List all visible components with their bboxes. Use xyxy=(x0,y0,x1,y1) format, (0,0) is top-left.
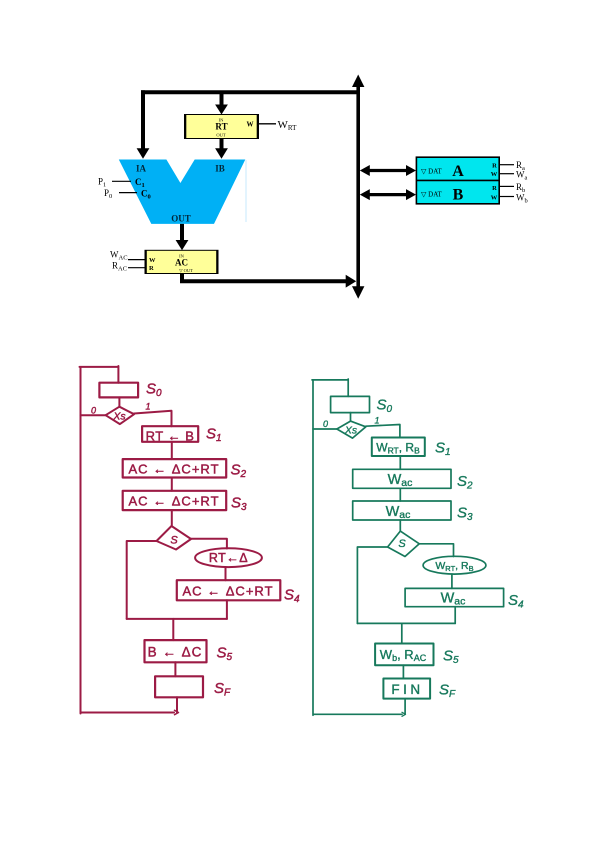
right chart handwritten texts xyxy=(323,397,524,701)
wire: branch 1 to S1 xyxy=(134,411,171,426)
wire: P0 stub xyxy=(119,192,137,194)
svg-text:AC ← ΔC+RT: AC ← ΔC+RT xyxy=(182,584,273,599)
wire: S5 to FIN right xyxy=(402,665,404,678)
wire: S1 to S2 xyxy=(171,442,173,459)
decision diamond Xs xyxy=(106,407,135,424)
wire: S4 down to join xyxy=(226,600,228,619)
state box S4: AC<-AC+RT xyxy=(177,580,280,600)
wire: S3 to decision S right xyxy=(399,520,401,531)
svg-text:S: S xyxy=(398,538,406,550)
wire: Rb stub xyxy=(499,185,514,187)
svg-text:OUT: OUT xyxy=(171,214,191,224)
svg-text:AC: AC xyxy=(175,258,188,268)
state box S5 right: Wb,RAC xyxy=(375,644,433,666)
state box SF (empty) xyxy=(155,676,203,697)
wire: outer loop right chart xyxy=(312,379,405,715)
state box S1 right: WRT,RB xyxy=(372,438,425,457)
wire: S0 to decision xyxy=(118,397,120,406)
wire: R_AC stub xyxy=(128,267,145,269)
wire: main vertical bus xyxy=(356,85,360,288)
svg-text:FIN: FIN xyxy=(391,682,423,697)
state box S2: AC<-AC+RT xyxy=(123,459,227,477)
wire: AC output to main bus xyxy=(180,274,346,282)
wire: Wa stub xyxy=(499,173,514,175)
wire: decision S right branch to ellipse right xyxy=(419,544,453,557)
wire: ellipse to S4 right xyxy=(451,574,453,588)
wire: bidirectional bus to register A xyxy=(369,169,408,172)
svg-text:AC ← ΔC+RT: AC ← ΔC+RT xyxy=(128,494,219,509)
svg-text:RT←Δ: RT←Δ xyxy=(209,551,248,565)
svg-text:0: 0 xyxy=(323,419,328,429)
left chart handwritten texts xyxy=(91,381,300,699)
wire: Wb stub xyxy=(499,196,514,198)
svg-text:W: W xyxy=(491,171,498,178)
wire: left drop into ALU input IA xyxy=(141,90,145,149)
state box S1: RT<-B xyxy=(142,426,198,442)
register RT xyxy=(185,115,259,139)
register file A/B xyxy=(416,157,499,204)
state box S4 right: Wac xyxy=(405,588,504,606)
ellipse WRT,RB xyxy=(423,556,486,574)
wire: S0 to decision right xyxy=(350,413,352,422)
register AC xyxy=(145,250,218,273)
svg-text:IA: IA xyxy=(136,164,147,174)
wire: ALU OUT to AC xyxy=(180,224,184,242)
wire: S4 down to join right xyxy=(454,607,456,624)
wire: branch 1 right xyxy=(366,425,400,438)
state box S0 (empty) xyxy=(99,383,138,398)
wire: S2 to S3 right xyxy=(399,488,401,501)
wire: join to S5 xyxy=(172,619,174,640)
wire: S2 to S3 xyxy=(171,478,173,491)
wire: S1 to S2 right xyxy=(399,456,401,469)
svg-text:A: A xyxy=(452,163,464,180)
wire: join horizontal xyxy=(127,618,227,620)
svg-text:▽ OUT: ▽ OUT xyxy=(179,268,193,273)
svg-text:1: 1 xyxy=(146,402,151,412)
svg-text:Xs: Xs xyxy=(344,425,358,437)
svg-text:OUT: OUT xyxy=(216,133,225,138)
wire: RT output to ALU input IB xyxy=(220,139,224,151)
node: small arrowhead at bottom junction xyxy=(175,710,179,714)
svg-text:B: B xyxy=(453,187,464,204)
decision diamond S xyxy=(157,526,192,550)
svg-text:RT: RT xyxy=(215,122,227,132)
svg-text:1: 1 xyxy=(375,416,380,426)
wire: Ra stub xyxy=(499,164,514,166)
state box S5: B<-AC xyxy=(145,640,207,662)
wire: RT W stub xyxy=(259,123,277,125)
svg-text:R: R xyxy=(492,185,497,192)
svg-text:AC ← ΔC+RT: AC ← ΔC+RT xyxy=(128,462,219,477)
svg-text:WRT, RB: WRT, RB xyxy=(435,560,473,573)
op ALU (V shape) xyxy=(119,160,246,224)
wire: S5 to SF xyxy=(174,662,176,676)
decision diamond S right xyxy=(388,531,420,556)
wire: ellipse to S4 xyxy=(225,567,227,580)
svg-text:W: W xyxy=(149,257,156,264)
wire: top horizontal bus line xyxy=(141,90,358,94)
svg-text:Xs: Xs xyxy=(112,411,126,423)
svg-text:B ← ΔC: B ← ΔC xyxy=(148,645,203,660)
wire: branch 0 right xyxy=(313,428,337,430)
decision diamond Xs right xyxy=(337,421,366,438)
ellipse RT<-A xyxy=(195,548,262,567)
svg-text:0: 0 xyxy=(91,406,96,416)
wire: W_AC stub xyxy=(128,259,145,261)
wire: decision S left branch down right xyxy=(357,547,387,623)
wire: bidirectional bus to register B xyxy=(369,193,408,196)
node: small arrowhead at bottom junction right chart xyxy=(402,712,406,716)
wire: branch 0 to outer loop xyxy=(81,414,106,416)
svg-text:IB: IB xyxy=(215,164,225,174)
svg-text:R: R xyxy=(149,265,154,272)
svg-text:▽ DAT: ▽ DAT xyxy=(421,191,442,199)
state box S3 right: Wac xyxy=(353,501,451,520)
svg-text:RT ← B: RT ← B xyxy=(146,429,195,444)
svg-text:W: W xyxy=(491,195,498,202)
state box S0 right (empty) xyxy=(331,396,370,412)
state box SF right: FIN xyxy=(383,679,430,699)
wire: S3 to decision S xyxy=(171,510,173,525)
state box S2 right: Wac xyxy=(353,469,451,488)
wire: join to S5 right xyxy=(401,623,403,643)
wire: drop from top line into RT register xyxy=(220,94,224,106)
svg-text:W: W xyxy=(247,120,254,128)
wire: outer loop left chart xyxy=(80,366,178,714)
wire: join horizontal right xyxy=(357,622,455,624)
svg-text:S: S xyxy=(170,535,178,547)
wire: decision S left branch down xyxy=(127,541,157,619)
wire: decision S right branch to ellipse xyxy=(191,539,227,549)
svg-text:R: R xyxy=(492,163,497,170)
state box S3: AC<-AC+RT xyxy=(123,491,227,510)
(decorative faint stripe) xyxy=(245,160,247,222)
svg-text:▽ DAT: ▽ DAT xyxy=(421,168,442,176)
wire: P1 stub xyxy=(112,180,131,182)
svg-text:WRT, RB: WRT, RB xyxy=(376,441,420,456)
